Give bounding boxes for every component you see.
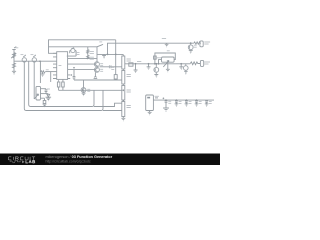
wire feedback loop: [155, 53, 175, 64]
ground: [166, 69, 170, 72]
label Q1: [100, 64, 103, 66]
label C2: [111, 67, 114, 69]
wire mid rail A: [74, 79, 122, 81]
resistor R12: [194, 42, 201, 44]
wire emitter join: [100, 66, 122, 68]
potentiometer R1: [11, 53, 16, 59]
ground: [189, 51, 193, 54]
label OUT2: [204, 62, 210, 64]
node top tick: [12, 47, 16, 50]
wire loop outer: [24, 62, 103, 110]
svg-text:mikerogerson / 03 Function Gen: mikerogerson / 03 Function Generator: [46, 155, 113, 159]
wire out1 line: [108, 43, 194, 54]
wire A-B link: [83, 80, 85, 88]
wire collector riser: [96, 47, 98, 62]
wire pin1: [41, 89, 47, 90]
footer bar: [0, 154, 220, 166]
potentiometer R7: [71, 48, 75, 53]
capacitor C2: [109, 65, 111, 68]
label R1: [15, 47, 18, 49]
wire drop2: [50, 72, 52, 82]
transistor Q3: [154, 64, 159, 75]
wire mid rail B: [59, 89, 122, 91]
pin stubs left: [53, 53, 57, 78]
switch SW1: [97, 45, 102, 47]
capacitor C5: [175, 100, 179, 106]
label 12V: [155, 95, 159, 97]
transistor Q4: [184, 64, 189, 74]
label R6: [46, 69, 49, 71]
wire top loop: [49, 40, 116, 54]
label R22: [127, 90, 131, 92]
label R24: [167, 50, 170, 52]
label R3: [21, 54, 24, 56]
wire base feed rail: [68, 58, 98, 60]
ground hanger3: [179, 64, 183, 70]
label R16: [157, 57, 161, 59]
wire vcc rail: [153, 99, 214, 101]
label C5: [179, 102, 182, 104]
label C7: [199, 102, 202, 104]
terminal OUT2: [200, 60, 203, 66]
capacitor C3: [71, 70, 76, 80]
wire to chip: [45, 71, 57, 73]
transistor Q2: [94, 67, 99, 72]
label R20: [127, 59, 131, 61]
wire riser: [39, 61, 41, 83]
logo LAB: [26, 160, 35, 163]
plus mark: [163, 98, 165, 100]
wire pin3: [41, 98, 45, 100]
resistor R2: [13, 63, 16, 68]
ground hanger mid: [102, 54, 106, 58]
wire bottom taps: [94, 103, 122, 110]
label R7: [75, 53, 79, 55]
ground: [82, 92, 86, 95]
wire switch drop: [87, 47, 89, 59]
terminal OUT1: [200, 41, 203, 47]
label X1: [59, 65, 62, 67]
resistor R6 with ground: [40, 71, 45, 77]
label R14: [90, 57, 94, 59]
resistor chain RN1: [122, 55, 125, 117]
wire tap2: [115, 79, 117, 80]
transistor Q6: [81, 88, 86, 93]
diode D1: [46, 94, 52, 97]
label SW1: [99, 41, 102, 43]
label C1: [47, 88, 50, 90]
wire pin2: [41, 93, 49, 95]
resistor R13: [87, 50, 89, 54]
wire opamp input: [125, 63, 176, 65]
potentiometer R3: [22, 55, 26, 62]
label R21: [127, 75, 131, 77]
ground: [46, 97, 50, 101]
junction dots: [39, 42, 197, 101]
svg-text:http://circuitlab.com/c/qc3odc: http://circuitlab.com/c/qc3odc: [46, 160, 91, 164]
capacitor C4: [163, 101, 169, 111]
label R15: [137, 61, 141, 63]
transistor Q5 on top line: [188, 43, 193, 50]
wire loop inner: [29, 61, 94, 106]
label C8: [209, 102, 212, 104]
resistor R14b: [87, 55, 89, 59]
ground hanger: [134, 64, 138, 73]
potentiometer R24 body: [162, 57, 175, 62]
resistor R11: [190, 62, 200, 65]
potentiometer R4: [32, 55, 36, 62]
transistor Q1: [94, 62, 99, 67]
capacitor C8: [205, 100, 209, 106]
resistor R18: [62, 79, 64, 82]
current source arrow: [94, 72, 98, 78]
wire base2: [68, 69, 96, 71]
switch contact dot: [102, 44, 103, 45]
capacitor C1: [45, 90, 48, 94]
label Q5: [194, 45, 197, 47]
potentiometer wiper arrow: [34, 94, 38, 99]
label R23: [127, 106, 131, 108]
label R4: [31, 54, 34, 56]
resistor R9: [129, 63, 133, 66]
wire left rail: [13, 50, 15, 72]
logo LAB arrow: [22, 161, 24, 164]
pin stubs right: [68, 75, 71, 79]
wire bus to IC: [14, 60, 57, 62]
ground hanger2: [147, 64, 151, 70]
wire tap: [115, 40, 117, 75]
wire base1: [68, 63, 96, 65]
wire switch branch: [49, 46, 98, 48]
ground: [43, 104, 47, 107]
wire mid tap: [97, 53, 123, 55]
potentiometer R25 body: [36, 86, 41, 100]
label Q6: [87, 89, 90, 91]
wire wiper drop: [167, 62, 169, 69]
ground: [121, 117, 125, 121]
label Q2: [100, 69, 103, 71]
IC U1 body: [57, 52, 68, 80]
battery V1: [146, 95, 158, 111]
resistor R10: [154, 56, 157, 59]
ground: [12, 71, 16, 74]
wire out2: [176, 63, 190, 65]
capacitor C6: [185, 100, 189, 106]
label OUT1: [204, 42, 210, 44]
resistor R17: [58, 79, 60, 82]
logo waveform: [10, 160, 20, 163]
logo CIRCUIT: [8, 157, 35, 160]
label C4: [168, 101, 171, 103]
resistor R5: [43, 101, 46, 104]
ground: [154, 75, 158, 78]
ground: [148, 111, 152, 115]
wire drop to R25: [33, 62, 35, 99]
wire pot legs: [67, 51, 76, 57]
potentiometer wiper arrow: [163, 60, 169, 67]
ground tap on top line: [165, 43, 169, 47]
battery label V1: [147, 97, 150, 99]
resistor R8: [114, 75, 117, 79]
label R13: [90, 52, 94, 54]
label node A: [162, 38, 166, 40]
label C6: [189, 102, 192, 104]
capacitor C7: [195, 100, 199, 106]
value labels: [15, 39, 211, 108]
